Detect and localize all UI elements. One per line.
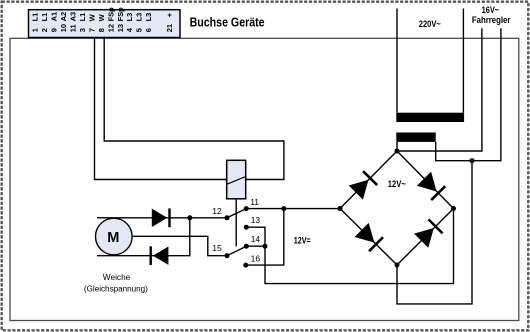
wire bridge bottom to transformer secondary right (397, 161, 472, 304)
motor M (Weiche drive) (96, 218, 133, 255)
svg-text:1: 1 (31, 28, 40, 32)
svg-text:11: 11 (250, 197, 259, 207)
svg-text:FSp: FSp (106, 7, 115, 22)
svg-text:5: 5 (135, 28, 144, 32)
connector pin 8 W (97, 13, 106, 32)
svg-text:W: W (87, 13, 96, 21)
svg-text:2: 2 (40, 28, 49, 32)
svg-text:L3: L3 (135, 13, 144, 22)
svg-text:3: 3 (78, 28, 87, 32)
contact 15 (212, 243, 229, 258)
svg-text:11: 11 (69, 24, 78, 32)
label 16V~ Fahrregler (472, 5, 511, 26)
svg-text:15: 15 (212, 243, 222, 253)
svg-text:9: 9 (50, 28, 59, 32)
svg-text:12V~: 12V~ (388, 179, 406, 190)
contact 13 (244, 215, 261, 230)
connector pin 7 W (87, 13, 96, 32)
node bridge AC bottom (395, 263, 400, 268)
svg-text:(Gleichspannung): (Gleichspannung) (84, 283, 148, 293)
svg-text:L3: L3 (144, 13, 153, 22)
node bridge AC top (395, 149, 400, 154)
node secondary tap (470, 158, 475, 163)
svg-text:13: 13 (116, 24, 125, 32)
svg-text:Buchse Geräte: Buchse Geräte (190, 16, 265, 30)
connector pin 10 A2 (59, 12, 68, 32)
svg-text:Weiche: Weiche (103, 272, 131, 282)
label Weiche (Gleichspannung) (84, 272, 148, 293)
svg-text:12V=: 12V= (294, 235, 311, 246)
svg-text:FSp: FSp (116, 7, 125, 22)
svg-text:14: 14 (251, 234, 261, 244)
svg-text:L1: L1 (31, 13, 40, 22)
svg-text:10: 10 (59, 24, 68, 32)
node diode junction (187, 215, 192, 220)
wire secondary right to Fahrregler right (436, 28, 501, 160)
wire 220V right lead (462, 9, 464, 113)
node bridge minus left (338, 206, 343, 211)
contact 12 (212, 206, 229, 221)
connector pin 4 L3 (125, 13, 134, 33)
contact 16 (243, 254, 260, 268)
svg-text:L3: L3 (125, 13, 134, 22)
connector pin 21 + (165, 12, 174, 32)
svg-text:M: M (107, 230, 119, 246)
wire bridge top to Fahrregler left (397, 28, 482, 151)
svg-text:12: 12 (212, 206, 222, 216)
label 12V~ (388, 179, 406, 190)
wire contact 11 to bridge minus (246, 208, 340, 210)
svg-text:8: 8 (97, 28, 106, 32)
connector pin 6 L3 (144, 13, 153, 33)
contact 11 (244, 197, 259, 211)
switch blade 12-11 (227, 209, 246, 218)
connector pin 12 FSp (106, 7, 115, 32)
wire motor bottom through D2 (97, 218, 190, 256)
relay actuator linkage (235, 199, 237, 247)
label 220V~ (419, 19, 441, 30)
transformer secondary winding (396, 133, 435, 142)
transformer primary winding (396, 113, 464, 122)
svg-text:A2: A2 (59, 12, 68, 22)
connector pin 3 L1 (78, 13, 87, 33)
connector pin 13 FSp (116, 7, 125, 32)
wire motor middle to contact 15 (133, 236, 227, 255)
wire 13/14 to bridge plus (265, 209, 454, 284)
wire motor top to contact 12 (97, 217, 227, 219)
svg-text:220V~: 220V~ (419, 19, 441, 30)
connector pin 9 A1 (50, 12, 59, 32)
connector pin 5 L3 (135, 13, 144, 33)
svg-text:L1: L1 (78, 13, 87, 22)
svg-text:W: W (97, 13, 106, 21)
label 12V= (294, 235, 311, 246)
svg-text:+: + (165, 12, 174, 17)
bridge diode D4 (top to right) (417, 172, 446, 201)
node bridge plus right (451, 206, 456, 211)
bridge rectifier diamond (340, 151, 454, 265)
svg-text:A3: A3 (69, 12, 78, 22)
svg-text:12: 12 (106, 24, 115, 32)
connector title Buchse Geräte (190, 16, 265, 30)
wire contact 13 down to 14 (246, 227, 265, 246)
switch blade 15-14 (227, 246, 246, 256)
diode D2 (motor bottom, anode right) (150, 246, 169, 265)
node junction 11/16 (281, 206, 286, 211)
bridge diode D5 (left to bottom) (355, 223, 384, 252)
svg-text:16: 16 (251, 254, 261, 264)
wire contact 16 up to node 11/16 (246, 209, 284, 266)
wire secondary left to bridge top (396, 142, 398, 151)
connector pin 11 A3 (69, 12, 78, 32)
connector J1 Buchse Geräte body (29, 10, 181, 38)
svg-text:L1: L1 (40, 13, 49, 22)
bridge diode D3 (left to top) (349, 170, 378, 199)
wire 220V left lead (396, 9, 398, 113)
diode D1 (motor top, anode left) (152, 208, 171, 227)
relay coil K1 (227, 160, 246, 199)
contact 14 (244, 234, 261, 249)
svg-text:A1: A1 (50, 12, 59, 22)
bridge diode D6 (bottom to right) (414, 218, 443, 247)
wire pin 8 to relay coil right (104, 38, 284, 180)
svg-text:Fahrregler: Fahrregler (472, 15, 511, 26)
svg-text:13: 13 (251, 215, 261, 225)
wire pin 7 to relay coil left (95, 38, 227, 180)
svg-text:21: 21 (165, 24, 174, 32)
svg-text:7: 7 (87, 28, 96, 32)
svg-text:6: 6 (144, 28, 153, 32)
connector pin 1 L1 (31, 13, 40, 33)
connector pin 2 L1 (40, 13, 49, 33)
wire contact 14 junction (246, 244, 267, 249)
